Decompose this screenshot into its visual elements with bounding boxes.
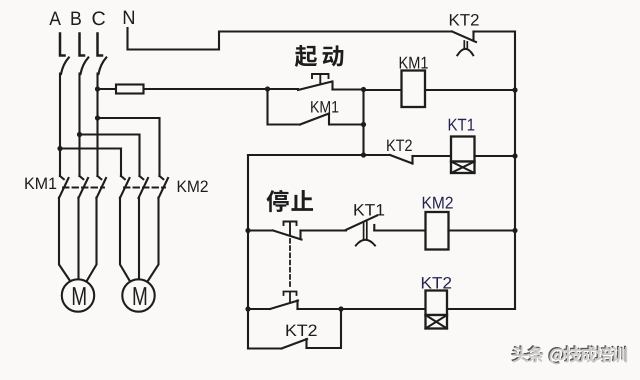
pushbutton SB1 NO blade bbox=[270, 301, 298, 310]
contactor KM1 main contact pole 3 bbox=[98, 176, 102, 179]
wire KT2 top to bus bbox=[474, 30, 516, 32]
wire KM1 pole1 to motor M1 bbox=[59, 198, 72, 284]
junction KT2-parallel bbox=[338, 306, 343, 311]
junction rail-stop bbox=[245, 228, 250, 233]
wire KM2 coil to bus bbox=[449, 229, 516, 231]
label KT2 (mid contact) bbox=[387, 140, 395, 151]
motor M2 circle bbox=[122, 279, 154, 311]
wire node to KM1 coil bbox=[364, 89, 402, 91]
phase label C bbox=[92, 11, 104, 25]
label KM1 (main contacts) bbox=[25, 178, 34, 189]
coil KT1 delay box X bbox=[451, 162, 475, 174]
wire rail to stop button bbox=[248, 229, 273, 231]
coil KT1 main box bbox=[451, 137, 475, 162]
mechanical link dashed bbox=[289, 239, 291, 288]
wire fuse rail bbox=[98, 88, 268, 90]
junction node mid bbox=[361, 122, 366, 127]
wire parallel branch down-left bbox=[268, 89, 301, 125]
phase label A bbox=[49, 12, 61, 25]
wire KM1 pole2 to motor M1 bbox=[77, 198, 79, 281]
coil KT2 main box bbox=[426, 291, 448, 316]
contact KT2 NO (mid) blade bbox=[390, 155, 413, 164]
pushbutton SB1 NC right post bbox=[299, 231, 301, 238]
wire phase A branch to KM2 pole1 bbox=[60, 149, 121, 177]
junction C-fuse bbox=[95, 86, 100, 91]
motor M1 letter bbox=[73, 287, 86, 305]
KM2 mechanical link dashes bbox=[124, 187, 165, 189]
contact KT2 right post bbox=[472, 32, 474, 41]
label KM2 (main contacts) bbox=[178, 181, 187, 192]
phase label B bbox=[71, 12, 80, 25]
contact KT1 NC time-delay blade bbox=[346, 216, 377, 230]
contact KT2 NO (loop) blade bbox=[282, 339, 308, 349]
label 停止 (stop) bbox=[266, 190, 288, 212]
KM1 mechanical link dashes bbox=[63, 187, 104, 189]
pushbutton SB1 actuator bbox=[284, 222, 297, 236]
contact KT2 loop right post bbox=[305, 339, 307, 348]
wire right bus bbox=[514, 32, 516, 310]
phase label N bbox=[124, 11, 134, 24]
junction start-parallel bbox=[265, 86, 270, 91]
contactor KM2 main contact pole 3 bbox=[160, 176, 164, 179]
coil KT1 delay box bbox=[451, 162, 475, 174]
contact KT1 right post bbox=[373, 225, 375, 230]
wire start button to node bbox=[333, 88, 364, 90]
watermark 头条@技成培训 bbox=[511, 345, 628, 365]
label KT2 (top contact) bbox=[450, 14, 460, 25]
coil KT2 delay box bbox=[426, 315, 448, 329]
switch pole phase B bbox=[80, 34, 85, 56]
label KM1 (aux contact) bbox=[311, 101, 319, 112]
wire KM2 pole1 to motor M2 bbox=[120, 198, 131, 284]
junction bus-KM2 bbox=[512, 228, 517, 233]
switch pole phase A bbox=[60, 34, 65, 56]
junction node bottom bbox=[361, 152, 366, 157]
wire KM1 coil to right bus bbox=[425, 89, 515, 91]
label KM1 coil bbox=[400, 57, 408, 69]
wire KM2 pole2 to motor M2 bbox=[138, 198, 140, 281]
wire KT1 coil to bus bbox=[475, 155, 516, 157]
coil KT2 delay box X bbox=[426, 315, 448, 329]
pushbutton SB2 起动 blade bbox=[298, 82, 332, 91]
wire KT2 loop up to junction bbox=[307, 309, 342, 348]
label 起动 (start) bbox=[295, 45, 317, 67]
junction node top bbox=[361, 87, 366, 92]
wire N down and right to top bus bbox=[128, 28, 453, 50]
KT2 delay arc bbox=[457, 49, 473, 55]
pushbutton SB1 停止 NC blade bbox=[273, 231, 302, 240]
wire KT2 loop down-right bbox=[248, 347, 282, 349]
wire KM2 pole3 to motor M2 bbox=[147, 198, 159, 284]
coil KM1 bbox=[402, 71, 426, 108]
wire rail to stop NO bbox=[248, 308, 270, 310]
junction A-branch bbox=[57, 146, 62, 151]
wire stop NO to junction bbox=[298, 308, 342, 310]
wire KT2 mid to KT1 coil bbox=[413, 155, 452, 157]
contact KT2 NO right post bbox=[411, 156, 413, 164]
contactor KM2 main contact pole 2 bbox=[140, 176, 144, 179]
wire phase A vertical bbox=[59, 74, 61, 177]
KT1 delay stem bbox=[364, 222, 367, 240]
contactor KM1 main contact pole 1 bbox=[60, 176, 64, 179]
label KM2 coil bbox=[423, 197, 432, 209]
wire left rail top / KT2 row bbox=[248, 154, 390, 156]
pushbutton SB2 right post bbox=[331, 82, 333, 90]
fuse FU bbox=[116, 85, 144, 94]
wire KM1 pole3 to motor M1 bbox=[86, 198, 97, 284]
KT2 delay stem bbox=[464, 41, 467, 49]
motor M1 circle bbox=[62, 279, 94, 311]
wire left rail bbox=[247, 155, 249, 349]
label KT1 coil bbox=[449, 119, 458, 131]
wire node column bbox=[362, 90, 364, 156]
pushbutton SB1 NO right post bbox=[296, 301, 298, 310]
wire KT2 coil to bus bbox=[447, 308, 515, 310]
wire phase C branch to KM2 pole3 bbox=[98, 118, 160, 176]
label KT2 (loop contact) bbox=[286, 325, 296, 336]
wire KT1 contact to KM2 coil bbox=[374, 229, 425, 231]
contact KT2 NC time-delay (top) blade bbox=[452, 32, 476, 43]
contact KM1 aux NO blade bbox=[300, 114, 329, 125]
label KT2 coil bbox=[422, 277, 432, 288]
label KT1 (delay contact) bbox=[354, 204, 364, 215]
contactor KM1 main contact pole 2 bbox=[80, 176, 84, 179]
wire phase C vertical bbox=[96, 74, 98, 177]
pushbutton SB1 NO actuator bbox=[284, 292, 297, 303]
contactor KM2 main contact pole 1 bbox=[121, 176, 125, 179]
junction rail-KT2coil row bbox=[245, 306, 250, 311]
junction bus-KT1 bbox=[512, 153, 517, 158]
wire phase B vertical bbox=[78, 74, 80, 177]
wire stop NC to KT1 contact bbox=[301, 229, 347, 231]
junction bus-KM1 bbox=[512, 87, 517, 92]
KT1 delay arc bbox=[356, 240, 375, 246]
junction C-branch bbox=[95, 115, 100, 120]
motor M2 letter bbox=[134, 287, 147, 305]
pushbutton SB2 actuator bbox=[312, 74, 329, 84]
junction B-branch bbox=[77, 132, 82, 137]
switch pole phase C bbox=[98, 34, 103, 56]
coil KM2 bbox=[426, 212, 449, 250]
wire phase B branch to KM2 pole2 bbox=[80, 135, 140, 177]
wire start rail bbox=[268, 88, 299, 90]
wire to KT2 coil bbox=[341, 308, 426, 310]
contact KM1 aux right post bbox=[329, 114, 364, 125]
